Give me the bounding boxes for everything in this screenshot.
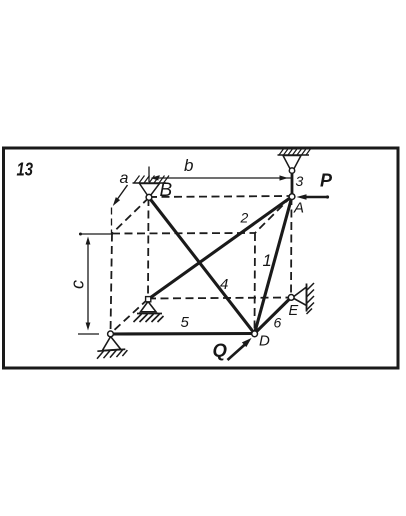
dashed edge N1-E (back bottom) bbox=[148, 298, 291, 299]
dimension b arrowheads bbox=[280, 175, 289, 180]
dashed edge N1-FBL (bottom left depth) bbox=[111, 299, 149, 334]
dimension c extension lines bbox=[78, 234, 113, 334]
node B bbox=[146, 194, 152, 200]
dashed edge B-FTL (top left depth) bbox=[112, 198, 149, 234]
node N1 square pin bbox=[146, 297, 151, 302]
rod 5 FBL-D bbox=[111, 332, 255, 336]
svg-text:D: D bbox=[259, 333, 270, 350]
node E bbox=[288, 295, 294, 301]
svg-text:B: B bbox=[160, 180, 173, 201]
dimension a extension line bbox=[111, 208, 113, 234]
svg-text:A: A bbox=[293, 200, 304, 217]
svg-text:a: a bbox=[120, 170, 129, 187]
svg-text:Q: Q bbox=[213, 340, 228, 361]
node D bbox=[252, 331, 258, 337]
dimension a arrow bbox=[115, 185, 128, 203]
node top support pin bbox=[289, 168, 294, 173]
node A bbox=[289, 194, 295, 200]
dashed edge FTR-D (front right) bbox=[254, 233, 257, 333]
svg-text:b: b bbox=[184, 156, 193, 175]
rod 6 D-E bbox=[255, 298, 292, 334]
svg-text:5: 5 bbox=[181, 314, 190, 331]
rod 4 B-D bbox=[149, 198, 255, 334]
svg-text:1: 1 bbox=[263, 252, 272, 270]
rod 3 A-top support bbox=[291, 171, 294, 197]
dashed edge A-FTR (top right depth) bbox=[255, 197, 292, 234]
support at B (hanging pin) bbox=[133, 176, 170, 198]
rod 2 A-N1 bbox=[149, 197, 293, 300]
rod 1 A-D bbox=[255, 197, 293, 334]
svg-text:3: 3 bbox=[296, 173, 304, 189]
support at E (wall link) bbox=[292, 283, 314, 314]
dashed edge FTL-FTR (front top) bbox=[112, 232, 255, 235]
force Q arrow bbox=[228, 344, 247, 361]
support at FBL (tilted ground pin) bbox=[95, 335, 128, 359]
node FBL bbox=[108, 331, 114, 337]
force P arrow bbox=[302, 196, 328, 199]
svg-text:2: 2 bbox=[240, 210, 249, 226]
dimension b line bbox=[149, 167, 291, 183]
svg-text:c: c bbox=[68, 280, 88, 289]
svg-text:6: 6 bbox=[274, 315, 282, 331]
border frame bbox=[4, 148, 399, 368]
svg-text:E: E bbox=[289, 303, 299, 319]
dashed edge B-A (back top) bbox=[149, 196, 292, 197]
dimension c arrowheads bbox=[86, 237, 91, 245]
dashed edge FTL-FBL (front left) bbox=[111, 234, 113, 334]
support top-right (hanging pin for rod 3) bbox=[278, 148, 312, 173]
svg-text:13: 13 bbox=[17, 159, 34, 180]
support at N1 (ground pin) bbox=[134, 302, 164, 323]
dashed edge B-N1 (back left) bbox=[147, 198, 150, 299]
dashed edge A-E (back right) bbox=[290, 197, 293, 298]
svg-text:P: P bbox=[320, 171, 333, 191]
svg-text:4: 4 bbox=[220, 276, 228, 293]
